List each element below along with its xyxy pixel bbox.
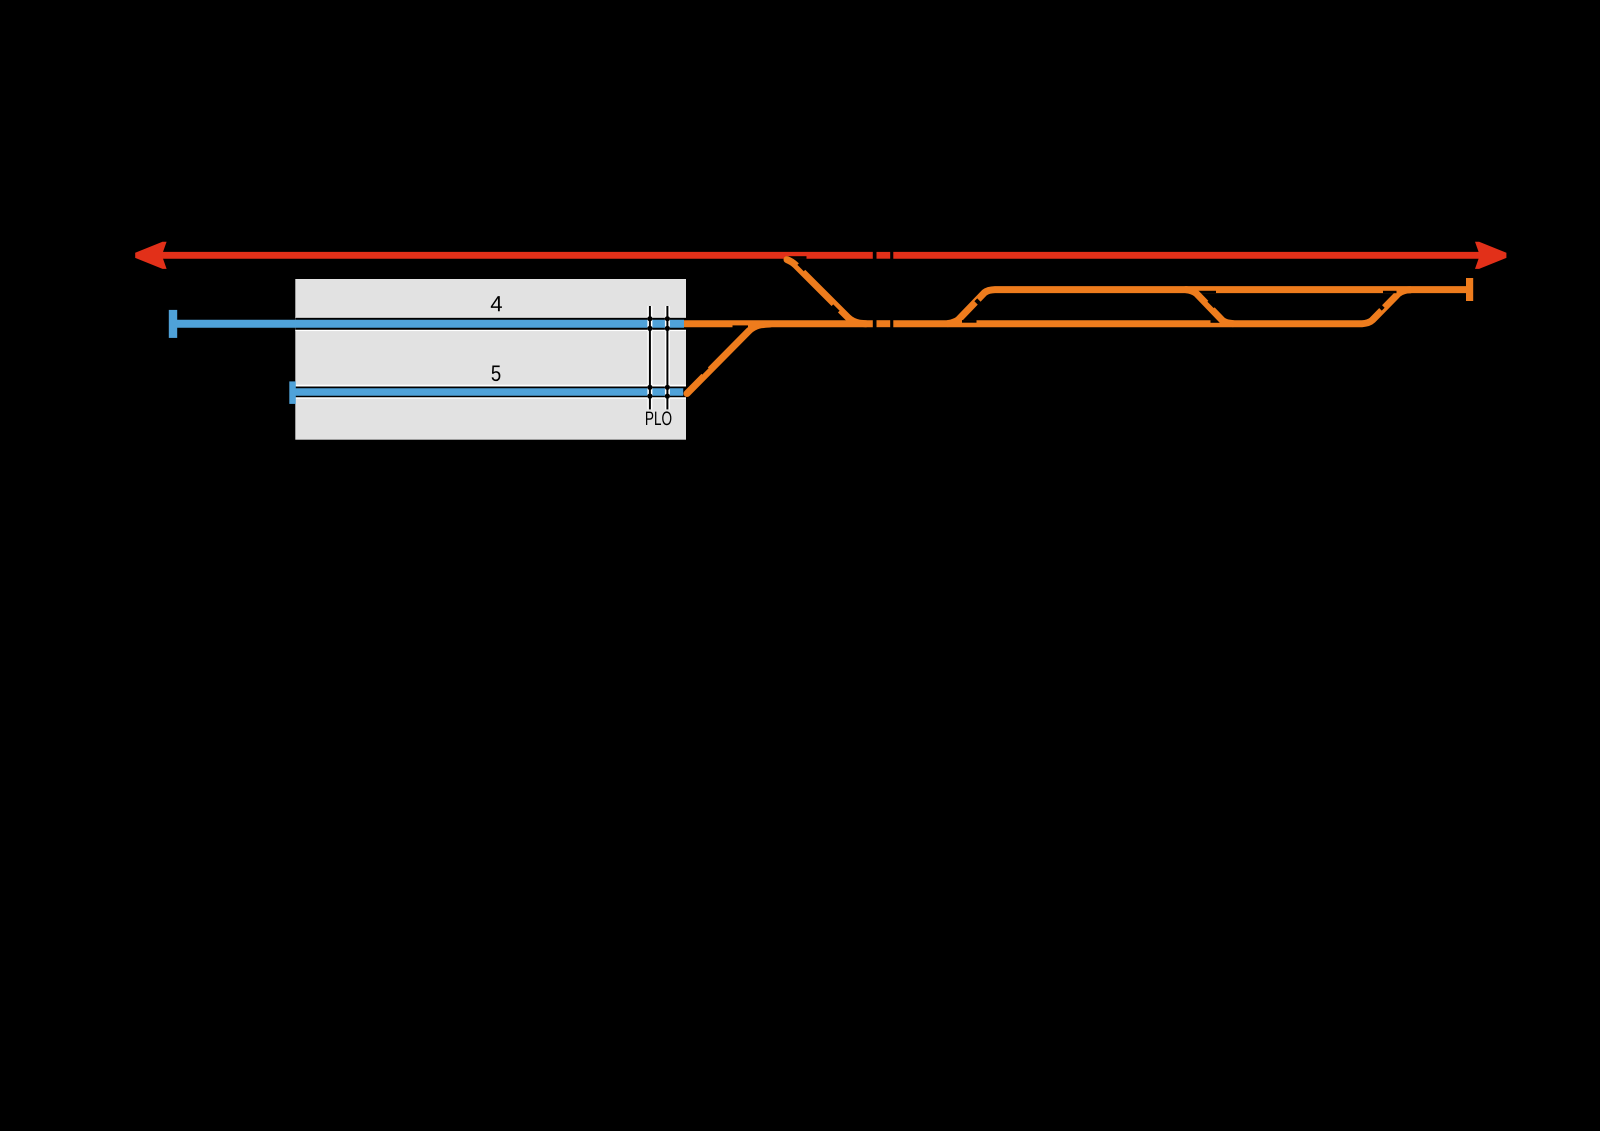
level crossing dots track 4	[647, 316, 652, 321]
platform edge lines track 5 (black band)	[295, 387, 686, 398]
junction notch on loop track at right merge	[1383, 291, 1397, 293]
platform edge casing track 5 (white band)	[295, 385, 686, 399]
platform edge lines track 4 (black band)	[295, 318, 686, 330]
track number 5 label	[492, 366, 501, 382]
joint notch on loop turnout diagonal	[974, 298, 983, 307]
PLO label	[646, 411, 671, 425]
platform (gray box)	[295, 279, 686, 440]
buffer stop at loop track end (orange)	[1466, 278, 1473, 301]
platform track 5 (blue)	[293, 388, 685, 396]
junction notch on station track at mid crossover	[1211, 320, 1227, 323]
station track 2 (orange), boundary dash	[877, 320, 891, 327]
main line arrowhead right	[1475, 242, 1506, 269]
joint notch on entry turnout lower	[830, 304, 839, 313]
junction slit between track 5 end and turnout	[683, 388, 686, 396]
buffer stop track 5 (blue)	[289, 381, 296, 404]
junction notch on loop track at mid crossover	[1196, 291, 1216, 293]
joint notch on track 5 turnout diagonal	[699, 365, 708, 374]
track number 4 label	[491, 296, 502, 311]
main line (red), right solid segment	[893, 252, 1483, 259]
turnout track 5 to station track (orange)	[687, 324, 770, 394]
joint notch on mid crossover diagonal	[1207, 299, 1216, 308]
station track 2 (orange), right segment with rise to loop level	[893, 290, 1411, 324]
main line (red), left solid segment	[158, 252, 873, 259]
mid crossover loop to station track (orange)	[1186, 290, 1233, 324]
buffer stop track 4 (blue)	[169, 310, 177, 338]
level crossing white casing vertical 1	[647, 306, 652, 409]
passing loop track (orange) with left turnout	[948, 290, 1466, 324]
level crossing white casing vertical 2	[665, 306, 670, 409]
junction notch on station track at track 5 turnout	[733, 325, 749, 328]
station track 2 (orange), left segment from platform	[684, 320, 873, 327]
main line (red), boundary dash	[877, 252, 891, 259]
entry turnout main line to station track (orange)	[787, 260, 866, 324]
level crossing vertical line 1	[649, 306, 651, 409]
level crossing vertical line 2	[666, 306, 668, 409]
joint notch on entry turnout upper	[797, 262, 806, 271]
platform track 4 (blue)	[173, 320, 684, 328]
platform edge casing track 4 (white band)	[295, 317, 686, 331]
main line arrowhead left	[135, 242, 166, 269]
junction notch cut into main line at entry turnout	[787, 256, 807, 259]
junction notch on station track at loop turnout	[962, 320, 977, 323]
level crossing dots track 5	[647, 385, 652, 390]
joint notch on right merge diagonal	[1375, 301, 1384, 310]
